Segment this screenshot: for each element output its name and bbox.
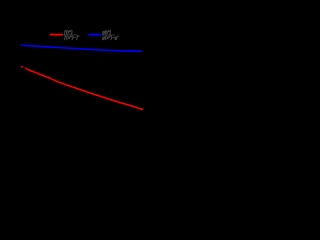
svg-text:ƒ(xk): ƒ(xk) bbox=[64, 29, 73, 34]
blue series curve bbox=[24, 45, 141, 51]
legend red line sample bbox=[50, 34, 63, 36]
red series curve bbox=[27, 69, 142, 109]
red series first dash bbox=[25, 67, 27, 69]
blue series point markers bbox=[24, 45, 141, 51]
red series start marker bbox=[21, 66, 23, 68]
red series point markers bbox=[27, 69, 142, 109]
legend blue line sample bbox=[89, 34, 102, 36]
svg-text:g(xk): g(xk) bbox=[101, 29, 111, 34]
legend red label fraction bbox=[64, 29, 81, 40]
convergence chart bbox=[0, 0, 150, 150]
blue series start marker bbox=[21, 44, 23, 46]
svg-text:ƒ(x0)−ƒ*: ƒ(x0)−ƒ* bbox=[64, 35, 81, 40]
svg-text:g(x0)−g*: g(x0)−g* bbox=[101, 35, 119, 40]
legend blue label fraction bbox=[101, 29, 119, 40]
